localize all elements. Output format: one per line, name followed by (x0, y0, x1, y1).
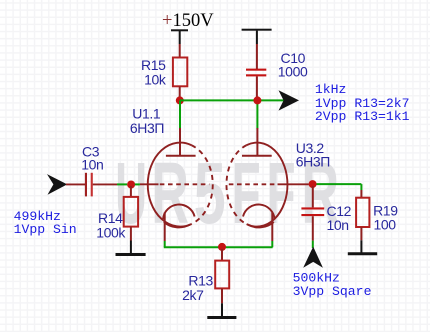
grid pin (278, 183, 309, 185)
wire (221, 303, 223, 317)
wire (271, 241, 273, 247)
wire (66, 183, 85, 185)
wire (360, 184, 362, 190)
cathode lead (271, 213, 273, 242)
wire (256, 31, 258, 44)
svg-text:10k: 10k (144, 72, 167, 88)
wire (117, 183, 127, 185)
node junction B (253, 96, 261, 104)
capacitor C10 (246, 69, 266, 77)
wire (130, 241, 132, 255)
power bar VCC2 (242, 29, 272, 31)
plate bar (242, 155, 272, 157)
grid dashed (229, 183, 278, 185)
output port arrow (279, 90, 300, 110)
resistor R13 (215, 261, 229, 289)
wire (221, 249, 223, 262)
node junction D (218, 243, 226, 251)
wire (130, 186, 132, 198)
wire (179, 31, 181, 44)
resistor R14 (124, 197, 138, 227)
wire (312, 216, 314, 240)
wire (256, 44, 258, 69)
power bar VCC1 (171, 29, 188, 31)
wire (360, 240, 362, 253)
wire (256, 76, 258, 100)
grid dashed (160, 183, 210, 185)
svg-text:5: 5 (194, 144, 226, 242)
wire cathode bus (164, 241, 166, 247)
envelope dashed half (191, 145, 212, 224)
svg-text:10n: 10n (81, 156, 103, 172)
svg-text:6Н3П: 6Н3П (130, 120, 164, 136)
cathode arc (163, 204, 195, 219)
wire (360, 190, 362, 199)
capacitor C3 (85, 173, 93, 197)
plate bar (166, 155, 196, 157)
envelope solid half (247, 143, 288, 227)
svg-text:10n: 10n (327, 217, 349, 233)
wire (221, 288, 223, 303)
wire (179, 100, 181, 128)
svg-text:2k7: 2k7 (182, 287, 204, 303)
port arrow up (303, 247, 323, 268)
svg-text:+150V: +150V (162, 11, 214, 31)
resistor R15 (173, 58, 187, 87)
triode U3.2 (226, 128, 329, 241)
wire (135, 183, 140, 185)
capacitor C12 (301, 207, 324, 216)
wire (312, 186, 314, 207)
plate lead (256, 128, 258, 156)
wire (130, 227, 132, 241)
svg-text:2Vpp R13=1k1: 2Vpp R13=1k1 (315, 109, 410, 124)
ground GND1 (116, 253, 146, 256)
svg-text:1Vpp Sin: 1Vpp Sin (14, 222, 77, 237)
wire (93, 183, 117, 185)
cathode arc (243, 204, 275, 219)
svg-text:1000: 1000 (278, 64, 308, 80)
svg-text:100: 100 (374, 216, 397, 232)
triode U1.1 (130, 106, 213, 242)
wire (360, 227, 362, 240)
plate lead (179, 128, 181, 156)
resistor R19 (356, 198, 369, 227)
wire (179, 44, 181, 59)
wire (179, 86, 181, 100)
node junction C (127, 181, 135, 189)
svg-text:R13: R13 (188, 272, 213, 288)
node junction E (309, 180, 317, 188)
svg-text:3Vpp Sqare: 3Vpp Sqare (293, 284, 372, 299)
envelope solid half (148, 143, 192, 227)
ground GND3 (348, 252, 377, 255)
node junction A (176, 96, 184, 104)
wire plate bus (180, 99, 284, 101)
wire (317, 183, 362, 185)
input port arrow (47, 174, 67, 195)
wire (312, 241, 314, 248)
svg-text:6Н3П: 6Н3П (296, 154, 330, 170)
svg-text:100k: 100k (96, 224, 126, 240)
grid pin (140, 183, 159, 185)
wire (164, 246, 273, 248)
wire (256, 100, 258, 128)
watermark UR5FFR (115, 144, 339, 242)
envelope dashed half (226, 145, 246, 224)
ground GND2 (207, 316, 236, 319)
cathode lead (164, 213, 166, 242)
